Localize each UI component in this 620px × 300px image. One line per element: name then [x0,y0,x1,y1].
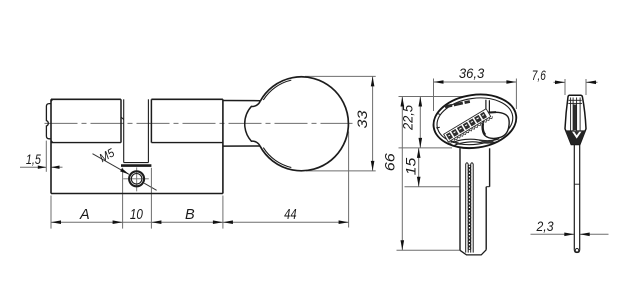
svg-text:66: 66 [381,153,397,171]
svg-text:22,5: 22,5 [401,105,416,131]
svg-text:1,5: 1,5 [26,151,41,167]
svg-text:2,3: 2,3 [536,218,554,234]
svg-text:15: 15 [404,157,419,175]
svg-text:36,3: 36,3 [459,65,485,81]
svg-text:10: 10 [130,207,143,223]
svg-text:A: A [79,207,90,223]
svg-text:7,6: 7,6 [532,67,546,83]
svg-text:33: 33 [354,110,370,128]
svg-text:B: B [185,207,195,223]
svg-text:44: 44 [284,207,297,223]
